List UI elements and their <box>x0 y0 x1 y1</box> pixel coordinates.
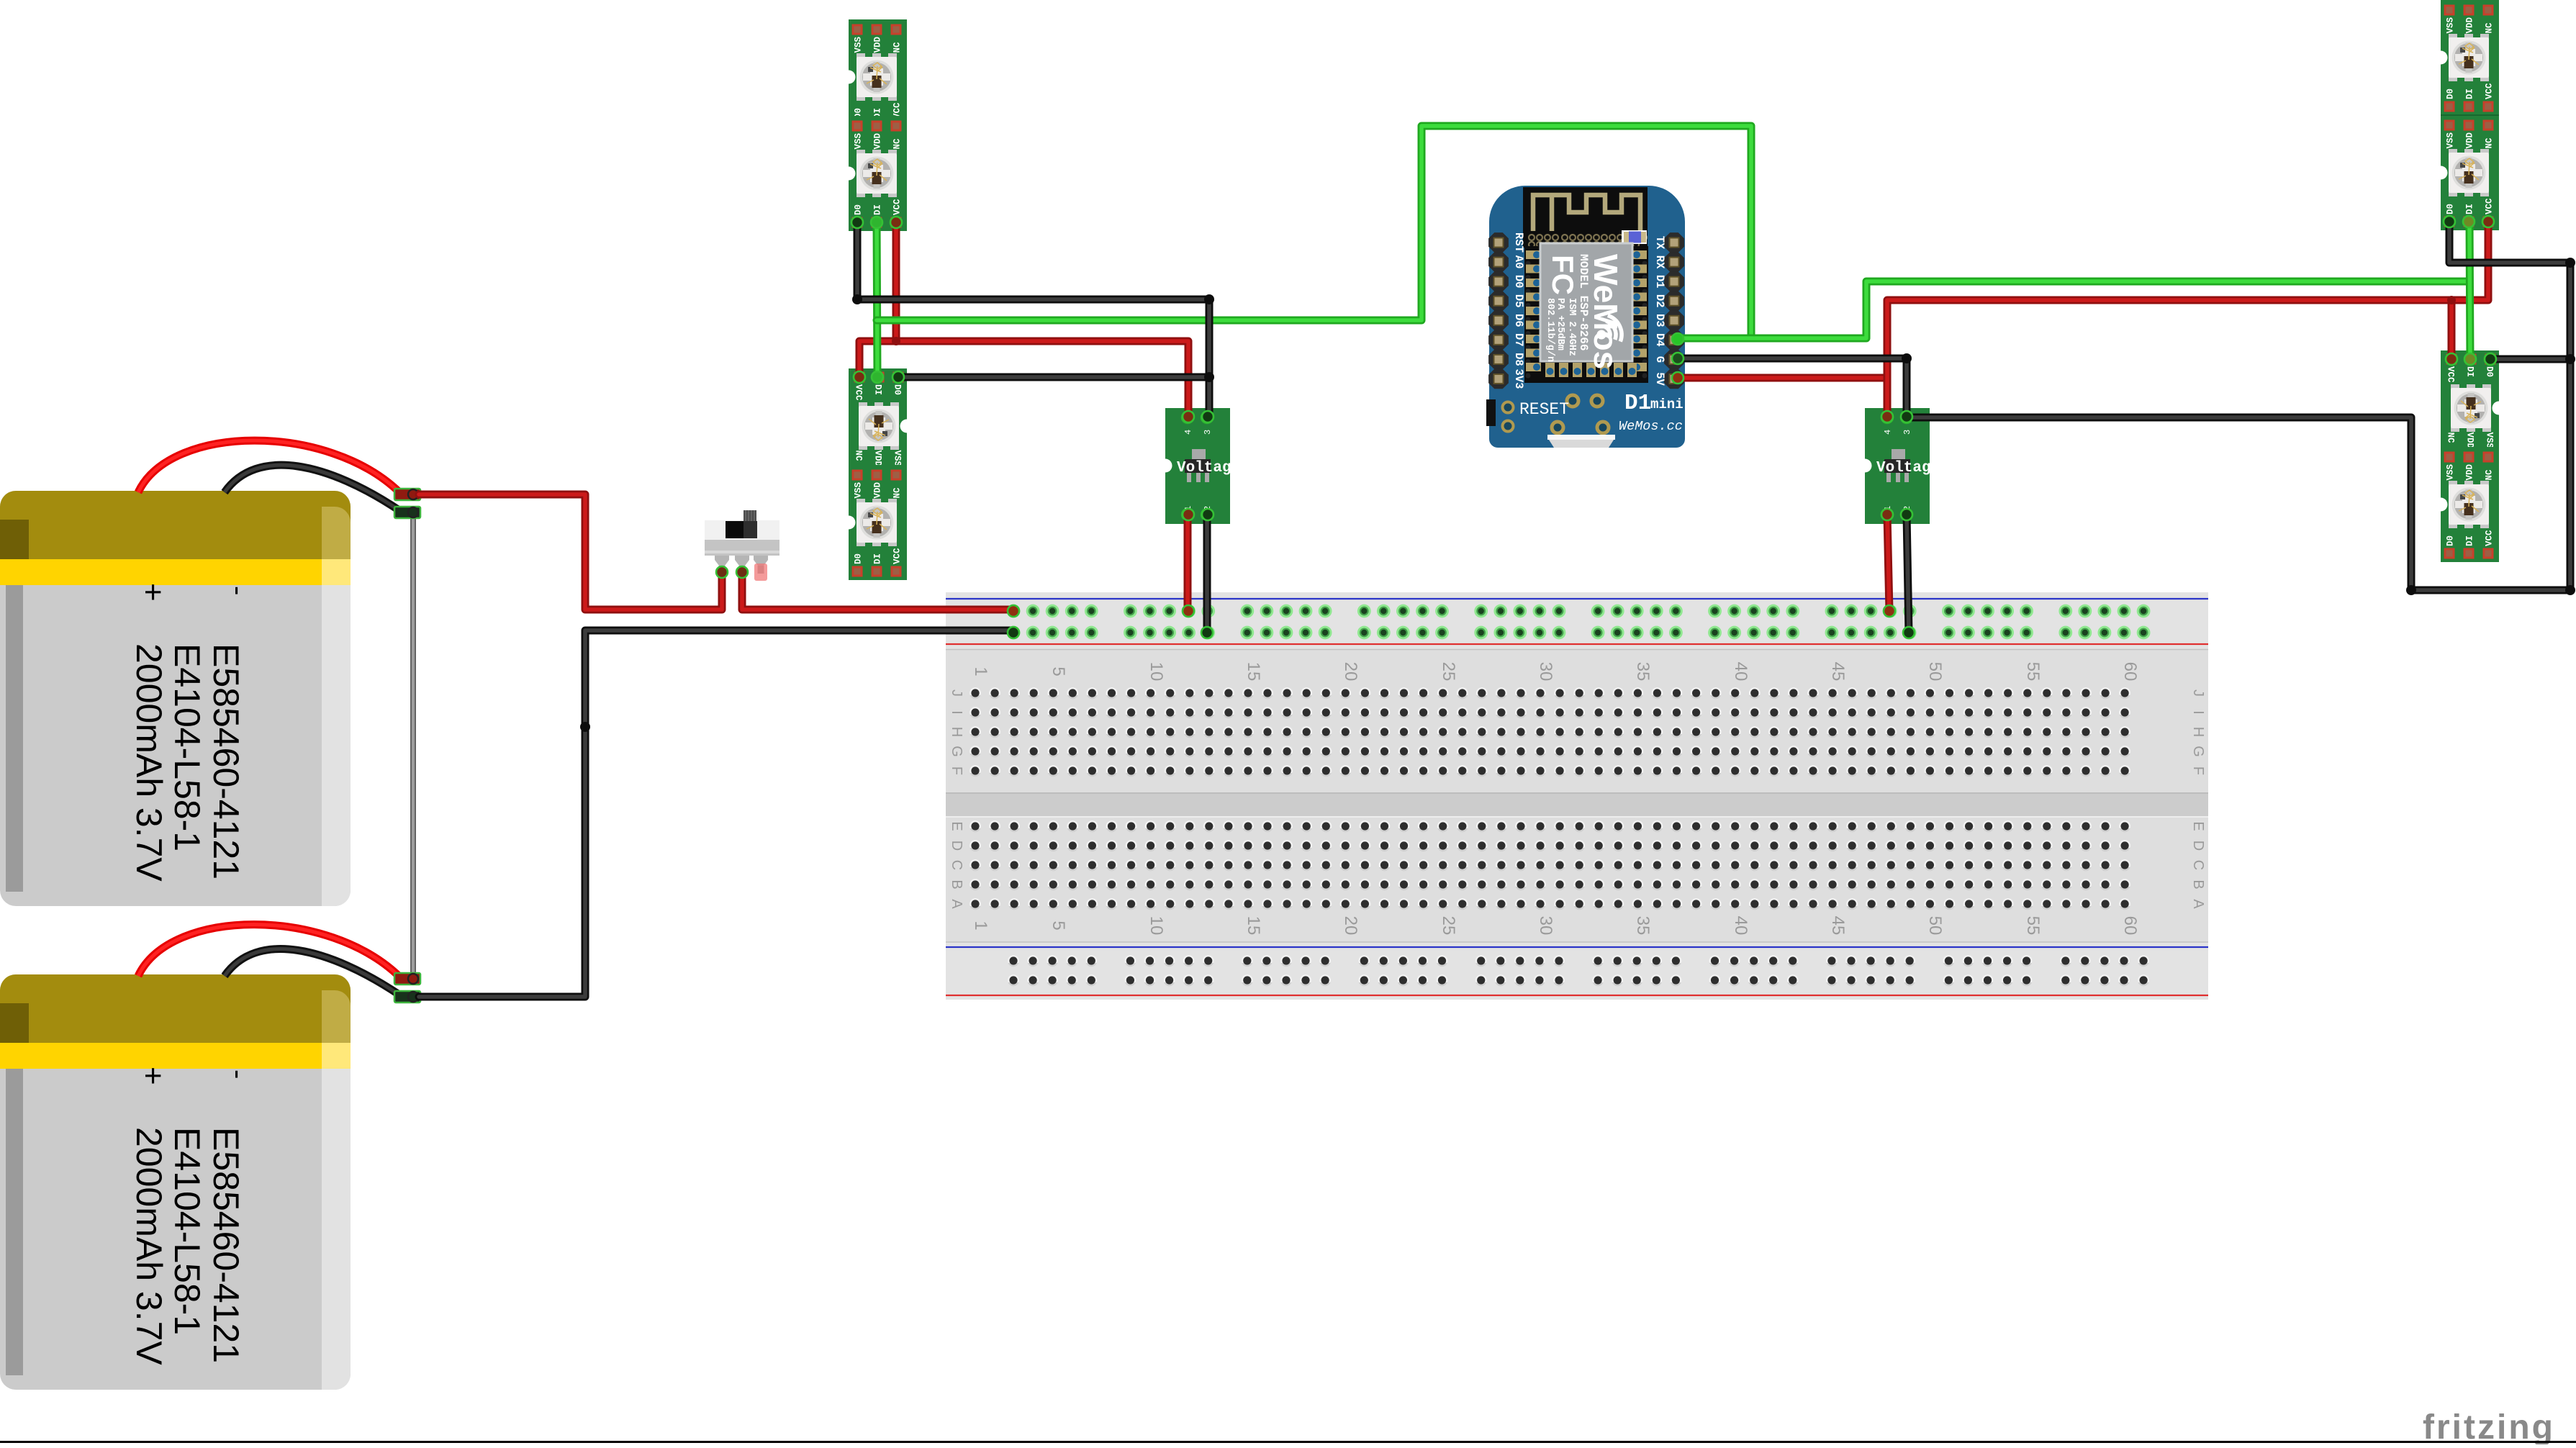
svg-text:10: 10 <box>1147 662 1166 682</box>
wire battery+ to switch pin1 (red) <box>419 494 722 610</box>
connection ring rail hole +1 <box>1008 605 1019 617</box>
svg-text:DI: DI <box>873 204 883 215</box>
svg-text:35: 35 <box>1633 916 1653 936</box>
svg-text:3V3: 3V3 <box>1512 369 1525 389</box>
svg-text:D0: D0 <box>2446 89 2456 99</box>
connection ring U2 pin4 <box>1183 411 1194 422</box>
svg-text:1: 1 <box>971 666 990 676</box>
svg-text:VDD: VDD <box>2465 132 2475 148</box>
connection ring switch S1 pin1 <box>716 566 728 578</box>
svg-text:D0: D0 <box>2485 366 2495 377</box>
connection ring strip3 VCC pin <box>2482 216 2494 227</box>
svg-text:A: A <box>2190 899 2206 909</box>
junction black node strip2-D0 join <box>1204 372 1214 382</box>
svg-text:C: C <box>2190 860 2206 870</box>
svg-text:VCC: VCC <box>2485 83 2495 99</box>
svg-text:25: 25 <box>1439 916 1458 936</box>
wire DI node loop to WeMos D4 (green) <box>877 126 1751 338</box>
battery BT2 negative terminal <box>394 991 420 1003</box>
svg-text:NC: NC <box>2485 137 2495 149</box>
connection ring strip2 DI pin <box>872 371 883 383</box>
connection ring U3 pin2 <box>1901 509 1912 520</box>
svg-text:3: 3 <box>1902 430 1912 435</box>
svg-text:Voltag: Voltag <box>1876 460 1931 476</box>
connection ring U1 pin D4 <box>1672 333 1684 345</box>
svg-text:VCC: VCC <box>892 548 903 564</box>
svg-text:-: - <box>222 586 254 595</box>
svg-text:20: 20 <box>1341 916 1360 936</box>
svg-text:NC: NC <box>892 138 903 150</box>
svg-text:G: G <box>949 746 964 757</box>
svg-text:+: + <box>135 583 171 602</box>
svg-text:F: F <box>949 766 964 775</box>
connection ring switch S1 pin2 <box>736 566 748 578</box>
svg-text:G: G <box>1653 356 1666 363</box>
svg-text:60: 60 <box>2120 662 2140 682</box>
svg-text:30: 30 <box>1536 916 1555 936</box>
svg-text:DI: DI <box>2465 89 2475 99</box>
LED strip LED1/LED2 (top-left, WS2812 x2) <box>842 19 908 231</box>
svg-text:15: 15 <box>1244 662 1263 682</box>
svg-text:E: E <box>2190 821 2206 831</box>
wire strip4 D0 join (black) <box>2490 356 2570 363</box>
svg-text:fritzing: fritzing <box>2423 1408 2555 1444</box>
svg-text:VDD: VDD <box>873 36 883 53</box>
svg-text:10: 10 <box>1147 916 1166 936</box>
slide switch S1 <box>705 510 779 581</box>
svg-text:NC: NC <box>892 42 903 53</box>
battery BT2 red lead <box>138 925 400 977</box>
svg-text:VSS: VSS <box>2446 17 2456 33</box>
battery BT1 red lead <box>138 440 400 493</box>
canvas bottom border <box>0 1441 2576 1443</box>
wire regulator U3 pin2 to rail - (black) <box>1907 515 1909 633</box>
svg-text:2000mAh 3.7V: 2000mAh 3.7V <box>129 1127 169 1365</box>
connection ring rail hole +45 <box>1884 605 1895 617</box>
svg-text:VCC: VCC <box>2446 366 2456 383</box>
svg-text:VCC: VCC <box>854 384 864 401</box>
svg-text:PA +25dBm: PA +25dBm <box>1555 298 1565 350</box>
battery BT1 E585460-4121 2000mAh 3.7V <box>0 491 351 906</box>
svg-text:60: 60 <box>2120 916 2140 936</box>
svg-text:15: 15 <box>1244 916 1263 936</box>
svg-text:VSS: VSS <box>2485 433 2495 449</box>
junction black node strip3-D0 corner <box>2565 258 2575 268</box>
svg-text:H: H <box>949 727 964 737</box>
connection ring strip4 VCC pin <box>2446 353 2457 365</box>
svg-text:45: 45 <box>1828 916 1848 936</box>
svg-text:C: C <box>949 860 964 870</box>
svg-text:VCC: VCC <box>2485 198 2495 214</box>
svg-text:J: J <box>2190 689 2206 697</box>
svg-text:WeMos.cc: WeMos.cc <box>1619 419 1683 434</box>
battery BT1 black lead <box>225 465 400 511</box>
svg-text:A: A <box>949 899 964 909</box>
svg-text:DI: DI <box>2465 535 2475 546</box>
svg-text:mini: mini <box>1650 397 1684 412</box>
connection ring rail hole -10 <box>1201 627 1213 638</box>
connection ring U2 pin1 <box>1183 509 1194 520</box>
svg-text:D0: D0 <box>854 204 864 215</box>
svg-text:Voltag: Voltag <box>1177 460 1231 476</box>
wire WeMos G to regulator U3 pin3 (black) <box>1677 358 1907 417</box>
wire battery2- to power rail - (black) <box>419 630 1013 997</box>
battery BT2 black lead <box>225 949 400 995</box>
svg-text:I: I <box>2190 710 2206 715</box>
svg-text:D6: D6 <box>1512 314 1525 327</box>
svg-text:VDD: VDD <box>873 481 883 498</box>
connection ring strip4 DI pin <box>2464 353 2476 365</box>
LED strip LED7/LED8 (right, rotated 180) <box>2434 350 2506 562</box>
svg-text:VDD: VDD <box>2465 463 2475 480</box>
svg-text:D: D <box>2190 841 2206 851</box>
junction black node D0 bus corner <box>1204 294 1214 304</box>
connection ring strip2 D0 pin <box>892 371 904 383</box>
svg-text:55: 55 <box>2023 662 2043 682</box>
voltage regulator board U2 <box>1159 408 1231 524</box>
svg-text:NC: NC <box>2446 433 2456 444</box>
connection ring strip3 D0 pin <box>2444 216 2455 227</box>
svg-text:4: 4 <box>1183 430 1193 435</box>
svg-text:25: 25 <box>1439 662 1458 682</box>
svg-text:VSS: VSS <box>2446 132 2456 148</box>
junction black node strip1-D0 bend <box>852 294 862 304</box>
wire regulator U3 pin1 to rail + (red) <box>1887 515 1889 611</box>
connection ring strip3 DI pin <box>2463 216 2475 227</box>
svg-text:D2: D2 <box>1653 294 1666 308</box>
svg-text:VDD: VDD <box>873 132 883 149</box>
svg-text:5: 5 <box>1049 920 1068 930</box>
svg-text:VSS: VSS <box>854 36 864 53</box>
svg-text:D5: D5 <box>1512 294 1525 308</box>
wire strip1 D0 to regulator U2 pin3 (black) <box>857 222 1209 417</box>
connection ring U1 pin 5V <box>1672 372 1684 384</box>
svg-text:RST: RST <box>1512 232 1525 253</box>
svg-text:VDD: VDD <box>873 451 883 467</box>
svg-text:40: 40 <box>1731 916 1750 936</box>
svg-text:20: 20 <box>1341 662 1360 682</box>
connection ring strip1 DI pin <box>871 217 882 228</box>
wire strip1 DI to strip2 DI (green) <box>877 222 877 377</box>
svg-text:30: 30 <box>1536 662 1555 682</box>
svg-text:D1: D1 <box>1624 391 1651 416</box>
junction black node G-wire bend <box>1902 353 1912 363</box>
svg-text:A0: A0 <box>1512 255 1525 269</box>
svg-text:45: 45 <box>1828 662 1848 682</box>
svg-text:FC: FC <box>1546 255 1580 295</box>
svg-text:50: 50 <box>1925 662 1945 682</box>
breadboard <box>946 592 2208 1000</box>
connection ring rail hole +9 <box>1183 605 1194 617</box>
svg-text:VDD: VDD <box>2465 17 2475 33</box>
svg-text:D3: D3 <box>1653 314 1666 327</box>
connection ring rail hole -1 <box>1008 627 1019 638</box>
svg-text:VCC: VCC <box>892 199 903 215</box>
battery BT1 negative terminal <box>394 507 420 518</box>
svg-text:NC: NC <box>2485 22 2495 34</box>
svg-text:E4104-L58-1: E4104-L58-1 <box>167 643 207 851</box>
svg-text:G: G <box>2190 746 2206 757</box>
svg-text:RESET: RESET <box>1519 400 1569 419</box>
wire strip2 D0 join (black) <box>898 374 1209 381</box>
wire regulator U3 pin3 loop to right strips D0 (black) <box>1907 222 2570 590</box>
svg-text:TX: TX <box>1653 236 1666 250</box>
svg-text:E585460-4121: E585460-4121 <box>206 1127 246 1363</box>
junction red node strip1-VCC/strip2-VCC <box>892 337 900 345</box>
LED strip LED3/LED4 (mid-left, rotated 180) <box>842 368 914 580</box>
connection ring strip2 VCC pin <box>854 371 865 383</box>
wire strip2 VCC to regulator U2 pin4 (red) <box>859 341 1188 417</box>
svg-text:D1: D1 <box>1653 275 1666 289</box>
connection ring U3 pin1 <box>1881 509 1893 520</box>
svg-text:55: 55 <box>2023 916 2043 936</box>
wire 5V node to right strips VCC (red) <box>1887 222 2488 417</box>
svg-text:D0: D0 <box>892 384 903 395</box>
svg-text:-: - <box>222 1069 254 1079</box>
svg-text:NC: NC <box>2485 469 2495 481</box>
svg-text:1: 1 <box>971 920 990 930</box>
svg-text:D: D <box>949 841 964 851</box>
battery BT2 E585460-4121 2000mAh 3.7V <box>0 974 351 1390</box>
svg-text:E585460-4121: E585460-4121 <box>206 643 246 879</box>
junction black node black loop corner B <box>2565 585 2575 595</box>
battery BT1 positive terminal <box>394 489 420 500</box>
svg-text:D0: D0 <box>854 553 864 564</box>
svg-text:D0: D0 <box>2446 535 2456 546</box>
svg-text:D0: D0 <box>2446 204 2456 214</box>
wire battery1-negative to battery2-positive (gray) <box>410 512 416 979</box>
connection ring strip1 VCC pin <box>890 217 902 228</box>
svg-text:D0: D0 <box>1512 275 1525 289</box>
connection ring U1 pin G <box>1672 353 1684 364</box>
svg-text:ISM 2.4GHz: ISM 2.4GHz <box>1566 298 1577 356</box>
svg-text:DI: DI <box>873 384 883 395</box>
svg-text:4: 4 <box>1883 430 1893 435</box>
svg-text:D7: D7 <box>1512 333 1525 347</box>
wire switch pin2 to power rail + (red) <box>742 572 1013 610</box>
svg-text:50: 50 <box>1925 916 1945 936</box>
svg-text:DI: DI <box>2465 366 2475 377</box>
svg-text:I: I <box>949 710 964 715</box>
wire regulator U2 pin1 to rail + (red) <box>1184 515 1192 611</box>
wire WeMos D4 to right strips DI (green) <box>1681 281 2468 338</box>
connection ring strip1 D0 pin <box>851 217 863 228</box>
connection ring strip4 D0 pin <box>2485 353 2496 365</box>
svg-text:2000mAh 3.7V: 2000mAh 3.7V <box>129 643 169 882</box>
wire branch to strip4 VCC (red) <box>2448 300 2456 359</box>
LED strip LED5/LED6 (top-right) <box>2434 0 2500 230</box>
WeMos D1 mini module U1 <box>1486 186 1685 448</box>
svg-text:VSS: VSS <box>854 481 864 498</box>
svg-text:5: 5 <box>1049 666 1068 676</box>
svg-text:D8: D8 <box>1512 353 1525 366</box>
junction black node strip4-D0 join <box>2565 354 2575 364</box>
svg-text:F: F <box>2190 766 2206 775</box>
wire strip1 VCC down to red node (red) <box>892 222 900 341</box>
voltage regulator board U3 <box>1858 408 1931 524</box>
connection ring rail hole -46 <box>1903 627 1915 638</box>
wire strip3 DI to strip4 DI (green) <box>2469 222 2470 359</box>
svg-text:VSS: VSS <box>892 451 903 467</box>
wire regulator U2 pin2 to rail - (black) <box>1203 515 1211 633</box>
svg-text:DI: DI <box>873 553 883 564</box>
svg-text:E4104-L58-1: E4104-L58-1 <box>167 1127 207 1335</box>
svg-text:B: B <box>949 879 964 889</box>
svg-text:RX: RX <box>1653 255 1666 269</box>
svg-text:40: 40 <box>1731 662 1750 682</box>
connection ring U2 pin3 <box>1202 411 1214 422</box>
junction black node black loop corner A <box>2406 585 2416 595</box>
svg-text:NC: NC <box>854 451 864 462</box>
svg-text:D4: D4 <box>1653 333 1666 347</box>
svg-text:H: H <box>2190 727 2206 737</box>
connection ring U2 pin2 <box>1202 509 1214 520</box>
svg-text:B: B <box>2190 879 2206 889</box>
svg-text:3: 3 <box>1203 430 1213 435</box>
svg-text:35: 35 <box>1633 662 1653 682</box>
svg-text:VSS: VSS <box>2446 463 2456 480</box>
svg-text:+: + <box>135 1067 171 1085</box>
svg-text:DI: DI <box>2465 204 2475 214</box>
junction red node strip4-VCC branch <box>2447 296 2456 304</box>
svg-text:5V: 5V <box>1653 372 1666 386</box>
svg-text:WeMos: WeMos <box>1587 254 1624 369</box>
svg-text:VCC: VCC <box>2485 530 2495 546</box>
svg-text:J: J <box>949 689 964 697</box>
wire WeMos 5V to regulator U3 pin4 (red) <box>1677 374 1887 382</box>
battery BT2 positive terminal <box>394 973 420 985</box>
svg-text:VDD: VDD <box>2465 433 2475 449</box>
svg-text:802.11b/g/n: 802.11b/g/n <box>1545 298 1555 362</box>
connection ring U3 pin4 <box>1881 411 1893 422</box>
svg-text:E: E <box>949 821 964 831</box>
svg-text:VSS: VSS <box>854 132 864 149</box>
svg-text:NC: NC <box>892 487 903 499</box>
connection ring U3 pin3 <box>1901 411 1912 422</box>
junction black node battery2 black bend <box>580 722 590 732</box>
